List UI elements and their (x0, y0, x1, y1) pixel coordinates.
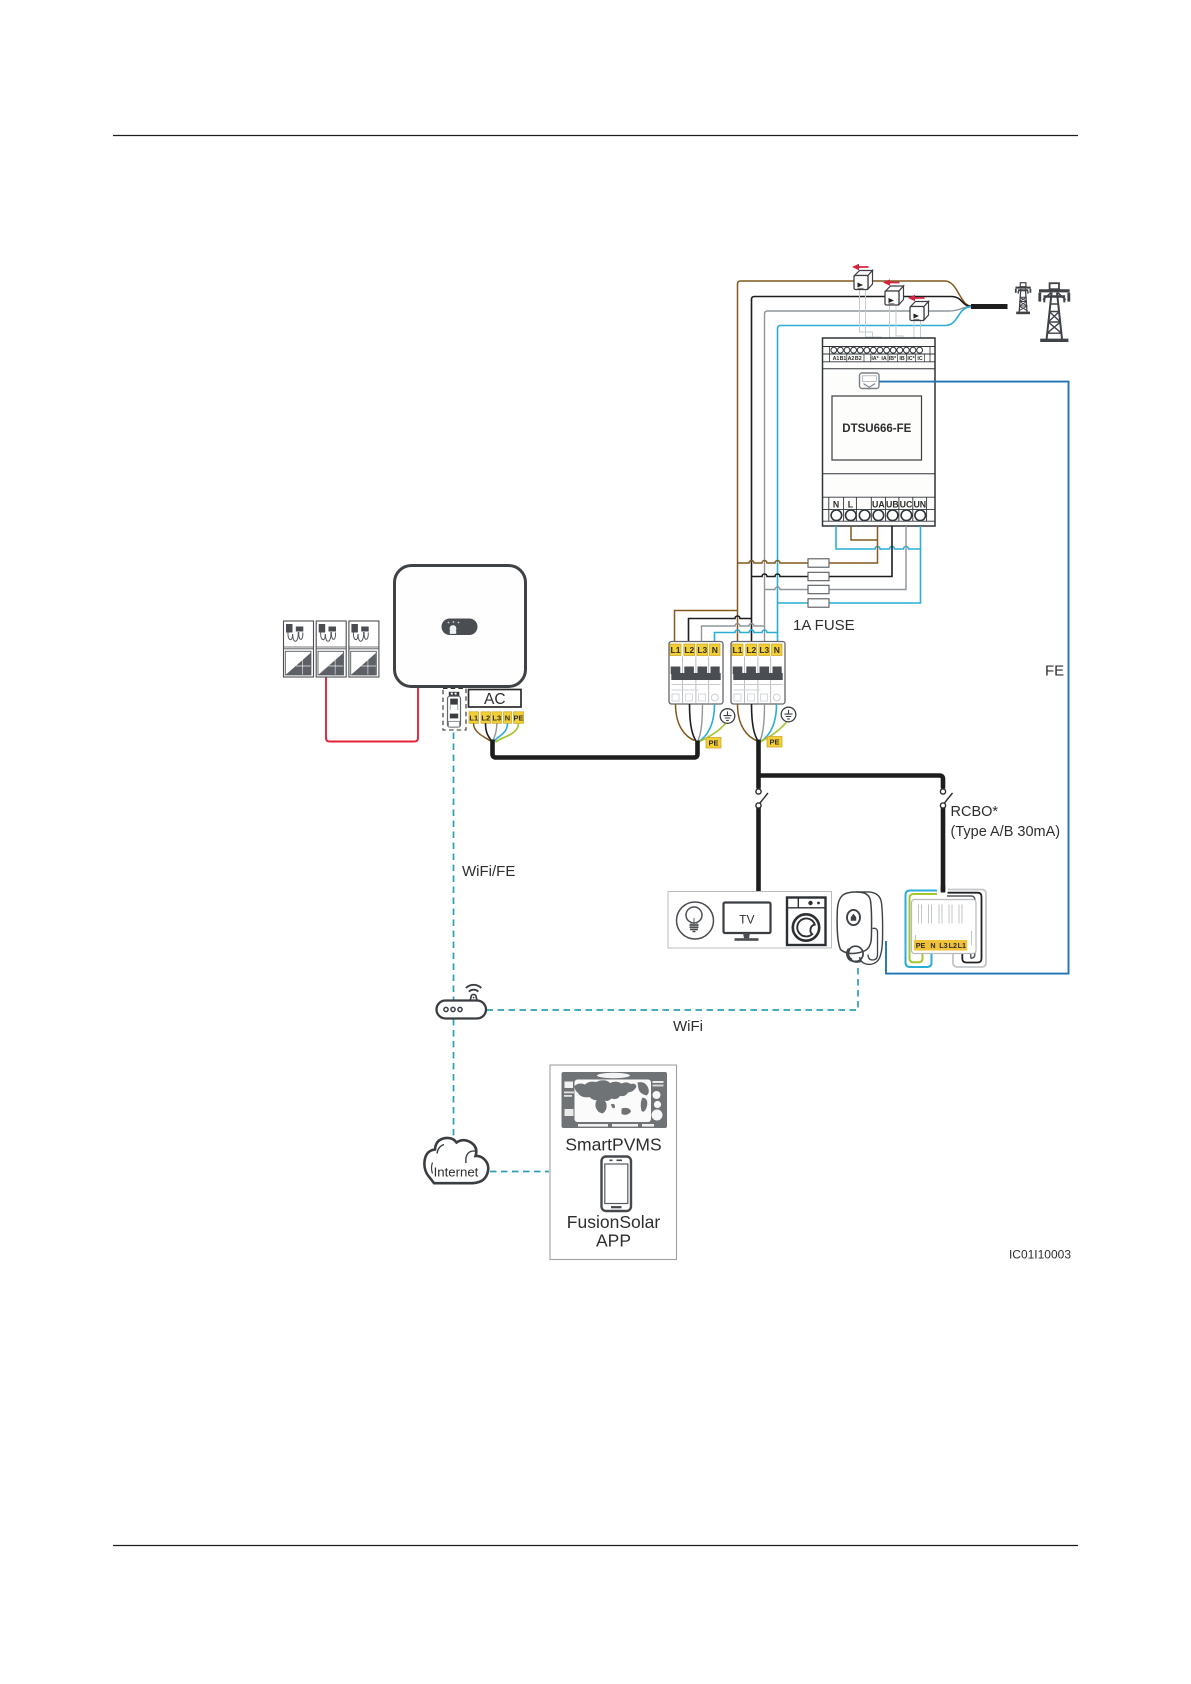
branch wire to breaker1 N (cyan) (715, 630, 778, 641)
svg-text:N: N (505, 713, 510, 722)
page footer rule (113, 1545, 1078, 1547)
breaker1 output N (cyan) (700, 704, 715, 741)
AC output cable (thick) (493, 740, 698, 758)
EV terminal outer gray loop (948, 890, 986, 968)
svg-text:PE: PE (769, 738, 779, 747)
inverter indicator panel (442, 619, 478, 636)
svg-text:L3: L3 (939, 941, 947, 950)
CT secondary wires phase B (890, 305, 904, 344)
svg-text:IA*: IA* (871, 356, 879, 362)
router leds (444, 1007, 448, 1011)
breaker2 output L3 (gray) (760, 704, 765, 741)
svg-text:PE: PE (708, 739, 718, 748)
meter UC wire (gray) (829, 526, 906, 590)
svg-text:L1: L1 (469, 713, 478, 722)
breaker2 PE wire (green-yellow) (760, 722, 787, 742)
WiFi dashed link router-EV charger (487, 966, 859, 1010)
EV terminal block (912, 900, 977, 954)
EV terminal cyan N loop (906, 891, 938, 968)
lamp icon (677, 902, 714, 939)
CT secondary wires phase C (914, 321, 921, 345)
FusionSolar phone icon (602, 1157, 632, 1212)
branch wire to breaker1 L3 (gray) (702, 624, 765, 642)
circuit breaker 2 (731, 642, 785, 705)
earth symbol 2 (781, 707, 796, 722)
fuse feed wire L3 (gray) (765, 587, 809, 590)
fuse F3 (808, 585, 829, 593)
svg-text:IC: IC (917, 356, 922, 362)
meter name plate DTSU666-FE (832, 396, 922, 460)
AC wire L1 (brown) (474, 723, 491, 741)
svg-text:L1: L1 (958, 941, 966, 950)
svg-text:N: N (930, 941, 935, 950)
grid neutral wire N (cyan) (778, 307, 972, 641)
meter L wire (brown) (851, 526, 878, 540)
svg-text:UC: UC (900, 500, 913, 510)
svg-text:1A FUSE: 1A FUSE (793, 617, 855, 634)
breaker2 output N (cyan) (762, 704, 777, 741)
switch S2 (RCBO) (940, 789, 952, 808)
svg-text:IB: IB (899, 356, 904, 362)
meter UN wire (cyan) (829, 526, 921, 603)
AC wire PE (green-yellow) (496, 723, 519, 742)
switch S1 (756, 789, 768, 808)
svg-text:PE: PE (513, 713, 523, 722)
meter UA wire (brown) (829, 526, 878, 563)
appliances box (668, 892, 832, 949)
EV terminal black loop L2 (947, 896, 975, 958)
FE ethernet line (blue) (879, 382, 1068, 974)
branch wire to breaker1 L2 (black) (689, 616, 752, 641)
grid phase wire L2 (black) (752, 297, 973, 642)
AC port label box (469, 690, 522, 708)
CT secondary wires phase A (860, 289, 882, 344)
svg-text:RCBO*: RCBO* (951, 804, 999, 820)
meter FE port (860, 373, 880, 389)
branch wire to breaker1 L1 (brown) (675, 611, 738, 642)
CT clamp phase C (908, 295, 929, 321)
power meter DTSU666-FE body (823, 338, 936, 526)
svg-text:IC*: IC* (907, 356, 915, 362)
cloud-server dashed link (490, 1171, 549, 1173)
WLAN-FE smart dongle dashed box (443, 689, 466, 731)
service drop cable to grid (971, 304, 1008, 309)
svg-text:IC01I10003: IC01I10003 (1009, 1248, 1071, 1262)
svg-text:UN: UN (913, 500, 926, 510)
svg-text:L2: L2 (949, 941, 957, 950)
circuit breaker 1 (669, 642, 723, 705)
earth symbol 1 (720, 709, 735, 724)
breaker2 output L2 (black) (752, 704, 759, 741)
grid phase wire L1 (brown) (738, 281, 973, 641)
svg-text:IB*: IB* (889, 356, 897, 362)
svg-text:DTSU666-FE: DTSU666-FE (842, 423, 911, 435)
WiFi/FE dashed link inverter-router (453, 733, 455, 1000)
CT clamp phase B (883, 279, 904, 305)
WLAN-FE smart dongle (448, 692, 461, 727)
fuse feed wire L1 (brown) (738, 561, 809, 564)
svg-text:UA: UA (872, 500, 885, 510)
fuse F4 (808, 599, 829, 607)
svg-text:L: L (848, 500, 854, 510)
svg-text:APP: APP (596, 1231, 631, 1251)
PV string 1 (284, 621, 314, 677)
AC wire L2 (black) (486, 723, 492, 741)
meter bottom terminal rows (823, 497, 936, 521)
svg-text:FusionSolar: FusionSolar (567, 1212, 661, 1232)
meter bottom terminal labels (833, 500, 926, 510)
router antenna (466, 985, 481, 1000)
svg-text:A1: A1 (833, 356, 840, 362)
EV terminal black loop L1 (948, 893, 982, 963)
svg-text:N: N (833, 500, 839, 510)
AC wire L3 (gray) (493, 723, 497, 741)
breaker1 output L3 (gray) (698, 704, 703, 741)
svg-text:B2: B2 (855, 356, 862, 362)
breaker1 PE wire (green-yellow) (699, 724, 726, 743)
inverter body (395, 566, 526, 687)
PE label 2 (767, 737, 782, 748)
PV string 3 (349, 621, 379, 677)
AC wire N (cyan) (495, 723, 508, 741)
meter top terminal circles (831, 347, 923, 353)
breaker2 output L1 (brown) (738, 704, 757, 741)
transmission tower large (1039, 283, 1070, 340)
SmartPVMS dashboard graphic (562, 1072, 668, 1128)
breaker1 output L1 (brown) (676, 704, 695, 741)
fuse feed wire N (cyan) (778, 602, 809, 604)
internet cloud (424, 1138, 488, 1183)
svg-text:WiFi: WiFi (673, 1018, 703, 1035)
svg-text:Internet: Internet (434, 1165, 479, 1180)
router body (437, 1001, 487, 1019)
PV DC cable (red) (326, 678, 418, 742)
EV terminal feed stub (941, 886, 946, 893)
svg-text:FE: FE (1045, 663, 1064, 680)
router-internet dashed link (453, 1019, 455, 1143)
fuse F1 (808, 559, 829, 567)
appliance branch cable (thick) (756, 740, 761, 892)
AC terminal tags L1 L2 L3 N PE (469, 712, 524, 724)
svg-text:B1: B1 (840, 356, 847, 362)
utility tower small (1016, 283, 1031, 313)
svg-text:TV: TV (739, 913, 754, 927)
PV string 2 (316, 621, 346, 677)
meter N wire (cyan) (836, 526, 921, 549)
EV branch cable (thick) (759, 776, 944, 892)
svg-text:PE: PE (916, 941, 926, 950)
washing machine icon (787, 898, 826, 946)
fuse feed wire L2 (black) (752, 574, 809, 577)
page header rule (113, 135, 1078, 137)
svg-text:IA: IA (881, 356, 886, 362)
svg-text:UB: UB (886, 500, 899, 510)
fuse F2 (808, 572, 829, 580)
svg-text:L2: L2 (481, 713, 490, 722)
svg-text:(Type A/B 30mA): (Type A/B 30mA) (951, 824, 1061, 840)
grid phase wire L3 (gray) (765, 307, 973, 641)
EV charger body (837, 892, 883, 964)
svg-text:SmartPVMS: SmartPVMS (565, 1135, 661, 1155)
svg-text:AC: AC (484, 691, 506, 708)
meter UB wire (black) (829, 526, 892, 577)
breaker1 output L2 (black) (690, 704, 697, 741)
svg-text:WiFi/FE: WiFi/FE (462, 863, 515, 880)
EV terminal PE loop (green-yellow) (910, 894, 938, 962)
PE label 1 (706, 738, 721, 749)
management system box (550, 1065, 677, 1260)
meter top terminal labels (833, 356, 923, 362)
meter bottom terminal circles (831, 510, 925, 521)
svg-text:A2: A2 (848, 356, 855, 362)
svg-text:L3: L3 (492, 713, 501, 722)
TV icon (724, 903, 771, 941)
CT clamp phase A (852, 264, 873, 290)
